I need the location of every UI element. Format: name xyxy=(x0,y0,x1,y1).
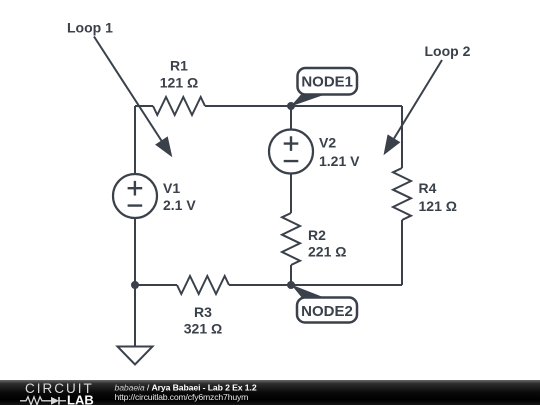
wire right branch upper xyxy=(401,106,403,168)
footer logo schematic squiggle xyxy=(20,397,66,405)
wire left branch lower xyxy=(134,218,136,285)
svg-text:121 Ω: 121 Ω xyxy=(160,75,198,91)
wire middle branch upper xyxy=(290,106,292,130)
svg-text:http://circuitlab.com/cfy6mzch: http://circuitlab.com/cfy6mzch7huym xyxy=(115,392,249,402)
wire bottom right horizontal xyxy=(229,284,402,286)
wire middle branch lower xyxy=(290,265,292,285)
wire bottom left horizontal xyxy=(135,284,177,286)
resistor R2 xyxy=(282,213,300,265)
svg-text:R3: R3 xyxy=(194,304,212,320)
footer bar xyxy=(0,380,540,405)
resistor R4 xyxy=(393,168,411,220)
node NODE2 box xyxy=(297,298,357,323)
ground xyxy=(118,347,153,365)
resistor R3 xyxy=(177,276,229,294)
wire to ground xyxy=(134,285,136,347)
voltage source V2 xyxy=(269,130,313,174)
node NODE1 box xyxy=(298,68,358,95)
node NODE2 callout tail xyxy=(291,285,328,300)
wire top-left horizontal segment xyxy=(135,105,153,107)
svg-text:Loop 2: Loop 2 xyxy=(425,43,471,59)
svg-text:NODE2: NODE2 xyxy=(301,303,353,320)
svg-text:Loop 1: Loop 1 xyxy=(67,20,113,36)
annotation arrow Loop 2 xyxy=(384,60,443,155)
junction dot node B bottom-left xyxy=(131,281,139,289)
resistor R1 xyxy=(153,97,205,115)
svg-text:R4: R4 xyxy=(419,180,437,196)
svg-text:2.1 V: 2.1 V xyxy=(163,197,196,213)
svg-text:321 Ω: 321 Ω xyxy=(184,321,222,337)
svg-text:V2: V2 xyxy=(319,135,336,151)
svg-text:221 Ω: 221 Ω xyxy=(308,244,346,260)
svg-text:babaeia / Arya Babaei - Lab 2: babaeia / Arya Babaei - Lab 2 Ex 1.2 xyxy=(115,383,257,393)
svg-text:NODE1: NODE1 xyxy=(301,74,353,91)
junction dot node C bottom-middle xyxy=(287,281,295,289)
junction dot node A top xyxy=(287,102,295,110)
svg-text:LAB: LAB xyxy=(67,393,94,405)
annotation arrow Loop 1 xyxy=(94,37,172,158)
wire right branch lower xyxy=(401,220,403,285)
svg-text:V1: V1 xyxy=(163,180,180,196)
svg-text:121 Ω: 121 Ω xyxy=(419,198,457,214)
svg-text:R2: R2 xyxy=(308,227,326,243)
wire middle branch middle xyxy=(290,174,292,214)
node NODE1 callout tail xyxy=(291,95,326,107)
voltage source V1 xyxy=(113,174,157,218)
wire left branch upper xyxy=(134,106,136,174)
wire top horizontal to right xyxy=(205,105,402,107)
svg-text:1.21 V: 1.21 V xyxy=(319,153,360,169)
svg-text:R1: R1 xyxy=(170,58,188,74)
